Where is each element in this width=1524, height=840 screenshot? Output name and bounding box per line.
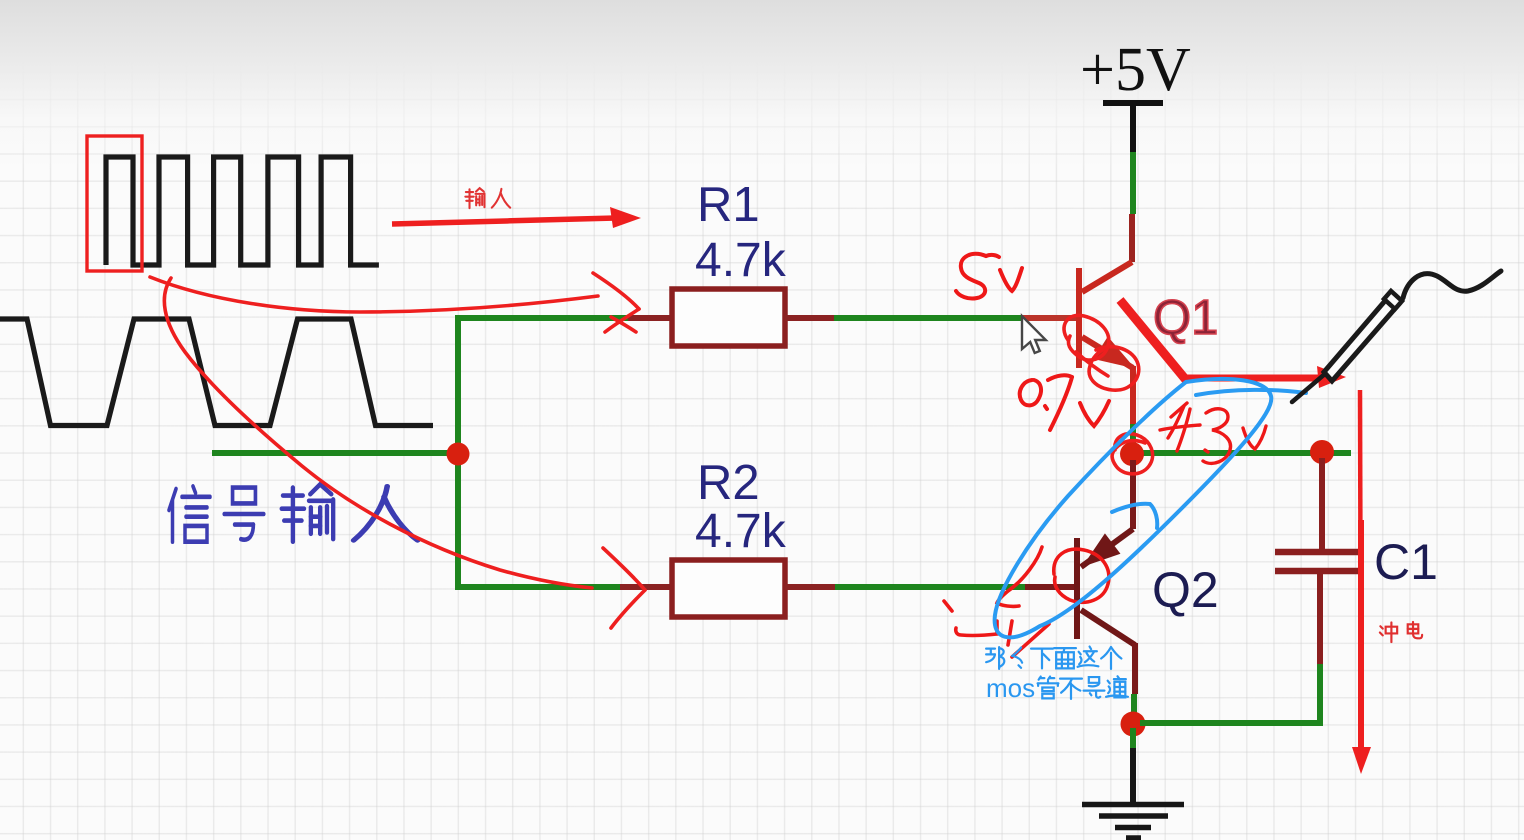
wire: C1 bottom green vertical — [1317, 664, 1323, 726]
junction dot Q1 emitter node — [1120, 442, 1144, 466]
wire: power stem green — [1130, 152, 1136, 214]
svg-text:4.7k: 4.7k — [695, 505, 787, 558]
wire: R2 output dark-red stub — [785, 584, 835, 590]
wire: R2 output green segment to Q2 base — [835, 584, 1025, 590]
red pen scribbles near Q2 base — [944, 547, 1109, 657]
blue pen big ellipse around Q2 — [995, 379, 1272, 637]
svg-text:mos: mos — [986, 673, 1035, 703]
red pen scribble loops on Q1 emitter — [1064, 315, 1139, 390]
svg-text:R2: R2 — [697, 456, 760, 510]
svg-text:4.7k: 4.7k — [695, 234, 787, 287]
svg-text:Q2: Q2 — [1152, 562, 1219, 618]
svg-text:+5V: +5V — [1080, 36, 1191, 104]
wire: C1 bottom dark-red lead — [1317, 574, 1323, 664]
red text 冲电 — [1380, 622, 1422, 642]
resistor R1 — [672, 289, 785, 346]
wire: ground node green stub below dot — [1130, 728, 1136, 753]
blue text line1 那么下面这个 — [986, 647, 1121, 669]
wire: input net horizontal — [212, 450, 458, 456]
trapezoid wave input signal — [0, 319, 433, 426]
wire: ground stem black — [1130, 748, 1136, 803]
transistor Q2 (PNP) — [1077, 529, 1135, 645]
wire: ground row horizontal — [1140, 720, 1320, 726]
junction dot ground node — [1121, 712, 1146, 737]
red pen arrowhead near R2 — [603, 548, 645, 590]
red handwriting 5v — [956, 254, 1022, 299]
wire: node down to Q2 emitter — [1130, 460, 1136, 529]
wire: vertical up to R1 row — [455, 318, 461, 456]
power bar — [1103, 100, 1163, 106]
wire: R2 input green segment — [455, 584, 620, 590]
capacitor C1 — [1275, 552, 1363, 571]
node A: output net horizontal — [1132, 450, 1351, 456]
red pen arrowhead near R1 — [593, 273, 639, 309]
Q1 emitter arrow — [1096, 339, 1131, 366]
wire: R2 input dark-red stub — [620, 584, 672, 590]
red pen curve B (to R2 input) — [164, 278, 592, 588]
junction dot input net — [447, 443, 470, 466]
wire: Q1 emitter red down — [1130, 366, 1136, 425]
wire: R1 output dark-red stub — [785, 315, 834, 321]
svg-text:R1: R1 — [697, 178, 760, 232]
wire: power stem black — [1130, 103, 1136, 152]
ground symbol — [1082, 805, 1184, 839]
wire: R1 output green segment to Q1 base — [834, 315, 1021, 321]
red pen circle around node dot — [1112, 434, 1152, 474]
red long vertical arrow (charging) — [1360, 390, 1361, 752]
junction dot C1 top node — [1310, 440, 1334, 464]
svg-text:Q1: Q1 — [1153, 291, 1218, 345]
red handwriting 4.3v — [1160, 403, 1266, 463]
red pen rectangle around first pulse — [87, 136, 142, 271]
red handwriting 0.7v — [1020, 375, 1109, 430]
oscilloscope probe — [1292, 271, 1501, 402]
red text 输入 — [465, 188, 510, 208]
wire: vertical down to R2 row — [455, 453, 461, 587]
blue pen small hook — [1112, 504, 1157, 528]
big blue text 信号输入 — [169, 484, 418, 541]
wire: Q2 collector green to ground node — [1131, 694, 1137, 716]
blue pen double stroke at ellipse top — [1196, 390, 1306, 395]
red thick horizontal arrow to probe — [1183, 375, 1322, 382]
wire: Q1 base red stub — [1021, 315, 1078, 321]
wire: Q2 base dark-red stub — [1025, 584, 1077, 590]
wire: Q1 collector dark-red stub — [1129, 214, 1135, 262]
wire: C1 top dark-red lead — [1319, 458, 1325, 549]
transistor Q1 (NPN) — [1079, 262, 1133, 368]
svg-text:C1: C1 — [1374, 534, 1438, 590]
wire: R1 input green segment — [455, 315, 628, 321]
mouse cursor — [1022, 316, 1046, 353]
resistor R2 — [672, 560, 785, 617]
red arrow 输入 (straight) — [392, 218, 616, 224]
wire: Q1 emitter green to node — [1130, 424, 1136, 446]
wire: R1 input dark-red stub — [628, 315, 672, 321]
red thick diagonal arrow from Q1 — [1120, 300, 1186, 380]
square wave input signal — [106, 157, 379, 265]
Q2 emitter arrow (points to bar) — [1086, 536, 1118, 564]
red pen curve A (to R1 input) — [150, 277, 598, 312]
wire: Q2 collector down dark red — [1132, 643, 1138, 694]
